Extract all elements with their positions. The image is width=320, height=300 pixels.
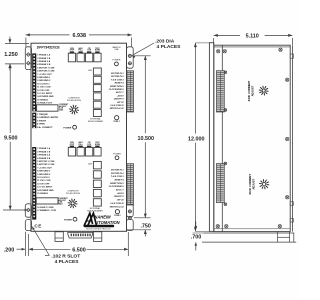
svg-text:15 SHIELD: 15 SHIELD <box>37 193 48 195</box>
svg-text:1 TORQUE: 1 TORQUE <box>37 114 48 116</box>
svg-text:8 GROUND 1: 8 GROUND 1 <box>37 171 51 173</box>
svg-text:.700: .700 <box>191 235 202 241</box>
d-sub connector <box>68 232 93 238</box>
svg-text:.203 DIA: .203 DIA <box>155 38 175 44</box>
mode switch box <box>93 189 101 196</box>
svg-text:6.938: 6.938 <box>73 33 87 39</box>
svg-text:2 PHASE 1 B: 2 PHASE 1 B <box>37 57 51 60</box>
mode switch box <box>93 68 101 75</box>
svg-text:15 SHIELD: 15 SHIELD <box>37 99 48 101</box>
svg-text:7 +5 VDC OUT: 7 +5 VDC OUT <box>37 74 52 76</box>
svg-text:6 MOTOR 2 COM: 6 MOTOR 2 COM <box>37 164 54 166</box>
foot left <box>55 232 63 242</box>
svg-text:4 PLACES: 4 PLACES <box>157 44 182 50</box>
svg-text:CCW: CCW <box>87 144 91 146</box>
terminal strip TB1 (left, upper) <box>32 53 36 111</box>
svg-text:+5V2 8: +5V2 8 <box>117 95 125 97</box>
screws at connector J1 <box>224 71 227 74</box>
label window 1 <box>37 105 58 111</box>
svg-text:8 GROUND 1: 8 GROUND 1 <box>37 77 51 79</box>
dip switch <box>95 51 99 53</box>
svg-text:3 SHORT: 3 SHORT <box>37 120 47 122</box>
hole top-left (.203) <box>27 61 31 65</box>
right edge tab 2 <box>290 202 293 205</box>
svg-text:CLOCKWISE 6: CLOCKWISE 6 <box>109 186 125 188</box>
svg-text:NORM: NORM <box>95 144 101 146</box>
mode switch box <box>93 180 101 187</box>
svg-text:5 MOTOR 1 COM: 5 MOTOR 1 COM <box>37 161 54 163</box>
svg-text:DPP73452XCE: DPP73452XCE <box>37 45 61 49</box>
svg-text:ADJUST: ADJUST <box>251 178 255 189</box>
svg-text:7 +5 VDC OUT: 7 +5 VDC OUT <box>37 167 52 169</box>
svg-text:14 POWER GND: 14 POWER GND <box>37 189 54 192</box>
svg-text:MODE NUMBER: MODE NUMBER <box>88 121 104 123</box>
mode switch box <box>93 171 101 178</box>
screws top row <box>217 50 220 53</box>
svg-text:AVCC 7: AVCC 7 <box>115 190 125 192</box>
svg-text:1.250: 1.250 <box>4 52 18 58</box>
mounting ear top-left <box>25 47 31 70</box>
svg-text:11 CW / CCW: 11 CW / CCW <box>37 87 51 89</box>
svg-text:13 V DC INPUT: 13 V DC INPUT <box>37 187 53 189</box>
logo anaheim automation <box>84 213 96 226</box>
svg-text:2 CURRENT LIMITED: 2 CURRENT LIMITED <box>37 117 59 119</box>
svg-text:POWER: POWER <box>112 60 120 62</box>
svg-text:FULL: FULL <box>78 50 82 52</box>
svg-text:12.000: 12.000 <box>188 137 205 143</box>
dip switch <box>87 146 91 148</box>
hole top-right (.203) <box>128 54 131 57</box>
svg-text:13 V DC INPUT: 13 V DC INPUT <box>37 93 53 95</box>
svg-text:10 CLOCK 2: 10 CLOCK 2 <box>37 177 50 179</box>
svg-text:INT 10: INT 10 <box>117 200 124 202</box>
side connector J2 <box>216 164 224 203</box>
svg-text:POWER: POWER <box>64 219 72 221</box>
bottom foot detail <box>277 232 279 243</box>
svg-text:ADJUST: ADJUST <box>250 85 254 96</box>
svg-text:MOTOR IN 1: MOTOR IN 1 <box>111 169 124 171</box>
svg-text:KICK CURRENT: KICK CURRENT <box>248 174 252 195</box>
side connector J1 <box>216 71 224 112</box>
fuse 2 <box>115 210 119 214</box>
mode switch box <box>93 85 101 92</box>
svg-text:3 PHASE 2 A: 3 PHASE 2 A <box>37 154 50 157</box>
svg-text:16 FAULT OUT: 16 FAULT OUT <box>37 102 53 105</box>
svg-text:12 ON / OFF: 12 ON / OFF <box>37 183 50 185</box>
slot top-left <box>27 53 31 57</box>
svg-text:3 PHASE 2 A: 3 PHASE 2 A <box>37 60 50 63</box>
svg-text:14 POWER GND: 14 POWER GND <box>37 95 54 98</box>
mode switch box <box>93 101 101 108</box>
svg-text:9 GROUND 2: 9 GROUND 2 <box>37 174 51 176</box>
hole bottom-left <box>27 208 31 212</box>
mode switch box <box>93 93 101 100</box>
dimension .750 <box>128 229 152 231</box>
svg-text:EXTERNAL: EXTERNAL <box>90 207 101 210</box>
svg-text:.102 R SLOT: .102 R SLOT <box>51 253 80 259</box>
svg-text:MOTOR CONTROL PROD. DIV.: MOTOR CONTROL PROD. DIV. <box>86 228 111 230</box>
svg-text:9 GROUND 2: 9 GROUND 2 <box>37 80 51 82</box>
svg-text:MOTOR IN 1: MOTOR IN 1 <box>111 73 124 75</box>
fuse 1 <box>115 116 119 120</box>
svg-text:4 PLACES: 4 PLACES <box>55 259 80 265</box>
hole bottom-right <box>128 210 131 213</box>
svg-text:4 PHASE 2 B: 4 PHASE 2 B <box>37 157 51 160</box>
svg-text:3.6-4 COM 11: 3.6-4 COM 11 <box>110 104 124 107</box>
svg-text:EXTERNAL: EXTERNAL <box>90 118 101 121</box>
side view: cover bend line <box>221 45 223 231</box>
dip switch <box>70 146 74 148</box>
right edge tab 1 <box>290 54 293 58</box>
right edge tab 3 <box>290 219 293 222</box>
edge connector P2 (right, lower) <box>127 164 134 205</box>
mounting ear bottom-right <box>127 204 134 217</box>
edge connector P1 (right, upper) <box>127 71 134 112</box>
svg-text:5 B+ CONNECT: 5 B+ CONNECT <box>37 127 53 129</box>
svg-text:10.500: 10.500 <box>138 136 155 142</box>
terminal strip TB3 (left, lower) <box>32 147 36 220</box>
mounting ear top-right <box>127 47 134 68</box>
dimension 12.000 <box>194 43 196 134</box>
svg-text:12 ON / OFF: 12 ON / OFF <box>37 90 50 92</box>
svg-text:MOTOR IN 2: MOTOR IN 2 <box>111 76 124 78</box>
dimension 10.500 <box>134 55 151 57</box>
side view: front plate edge <box>209 43 213 232</box>
svg-text:T & B COM 3: T & B COM 3 <box>111 79 125 81</box>
svg-text:1 PHASE 1 A: 1 PHASE 1 A <box>37 54 50 57</box>
dimension 6.938 <box>26 34 70 36</box>
svg-text:MOTOR IN 2: MOTOR IN 2 <box>111 173 124 175</box>
svg-text:FUSE 2: FUSE 2 <box>114 215 120 217</box>
svg-text:17 ENABLE / COM: 17 ENABLE / COM <box>37 209 56 212</box>
svg-text:.200: .200 <box>4 247 15 253</box>
svg-text:10 CLOCK 1: 10 CLOCK 1 <box>37 83 50 85</box>
svg-text:INT 10: INT 10 <box>117 102 124 104</box>
svg-text:4 OPEN: 4 OPEN <box>37 123 45 126</box>
svg-text:NAHEIM: NAHEIM <box>94 214 111 219</box>
svg-text:+5V2 8: +5V2 8 <box>117 193 125 195</box>
svg-text:1 PHASE 1 A: 1 PHASE 1 A <box>37 147 50 150</box>
dip switch <box>70 51 74 53</box>
dimension 9.500 <box>9 64 11 133</box>
svg-text:CLOCKWISE 6: CLOCKWISE 6 <box>109 89 125 91</box>
dip switch <box>95 146 99 148</box>
side view: right edge strip <box>292 45 294 231</box>
svg-text:MAX: MAX <box>59 108 64 111</box>
dimension 5.110 <box>214 34 240 36</box>
svg-text:3.6-4 COM 11: 3.6-4 COM 11 <box>110 202 124 205</box>
svg-text:MOTOR #1 12: MOTOR #1 12 <box>110 206 125 208</box>
svg-text:6 MOTOR 2 COM: 6 MOTOR 2 COM <box>37 71 54 73</box>
side view: chassis box <box>214 45 290 231</box>
label window 2 <box>36 198 58 204</box>
svg-text:2 PHASE 1 B: 2 PHASE 1 B <box>37 150 51 153</box>
svg-text:POWER: POWER <box>63 127 71 129</box>
svg-text:CCW: CCW <box>87 50 91 52</box>
svg-text:5.110: 5.110 <box>246 33 259 39</box>
svg-text:FULL: FULL <box>78 144 82 146</box>
mode switch box <box>93 199 101 206</box>
dip switch <box>78 51 82 53</box>
svg-text:DIRECTION 5: DIRECTION 5 <box>110 183 124 185</box>
svg-text:T & B COM 3: T & B COM 3 <box>111 176 125 178</box>
bottom lip of chassis <box>204 232 295 234</box>
svg-text:KICK CURRENT: KICK CURRENT <box>247 80 251 101</box>
terminal strip TB2 (left, mid) <box>32 113 36 129</box>
svg-text:4 PHASE 2 B: 4 PHASE 2 B <box>37 63 51 66</box>
svg-text:UTOMATION: UTOMATION <box>95 220 120 225</box>
svg-text:DIRECTION 5: DIRECTION 5 <box>110 86 124 88</box>
mounting ear bottom-left <box>25 204 31 217</box>
svg-text:RESET 4: RESET 4 <box>115 82 125 85</box>
svg-text:POWER: POWER <box>113 154 121 156</box>
foot right <box>94 232 102 242</box>
svg-text:9.500: 9.500 <box>4 136 18 142</box>
svg-text:ON/OFF 9: ON/OFF 9 <box>114 196 125 198</box>
svg-text:MAX: MAX <box>58 202 63 205</box>
svg-text:.750: .750 <box>140 224 151 230</box>
svg-text:AVCC 7: AVCC 7 <box>115 92 125 94</box>
dimension .700 <box>195 222 197 230</box>
dip switch <box>78 146 82 148</box>
svg-text:11 CW / CCW: 11 CW / CCW <box>37 180 51 182</box>
svg-text:NORM: NORM <box>95 50 101 52</box>
mode switch box <box>93 162 101 169</box>
svg-text:10M: 10M <box>88 163 92 165</box>
svg-text:RESET 4: RESET 4 <box>115 178 125 181</box>
svg-text:CE: CE <box>34 224 41 229</box>
svg-text:6.500: 6.500 <box>72 248 86 254</box>
screws bottom row <box>216 225 219 228</box>
mode switch box <box>93 110 101 117</box>
svg-text:ON/OFF 9: ON/OFF 9 <box>114 99 125 101</box>
dip switch <box>87 51 91 53</box>
mode switch box <box>93 76 101 83</box>
svg-text:10M: 10M <box>88 70 92 72</box>
dimension 6.500 <box>29 248 71 250</box>
screws right column <box>286 78 289 81</box>
dimension 1.250 <box>5 42 29 44</box>
svg-text:PULSE WIDTH: PULSE WIDTH <box>67 100 82 102</box>
svg-text:MOTOR #1 12: MOTOR #1 12 <box>110 108 125 110</box>
front view: panel outline <box>31 43 127 231</box>
svg-text:FUSE 1: FUSE 1 <box>114 121 120 123</box>
svg-text:5 MOTOR 1 COM: 5 MOTOR 1 COM <box>37 67 54 69</box>
svg-text:PULSE WIDTH: PULSE WIDTH <box>66 193 81 195</box>
screws at connector J2 <box>224 162 227 165</box>
svg-text:16 FAULT / GND: 16 FAULT / GND <box>37 206 54 209</box>
